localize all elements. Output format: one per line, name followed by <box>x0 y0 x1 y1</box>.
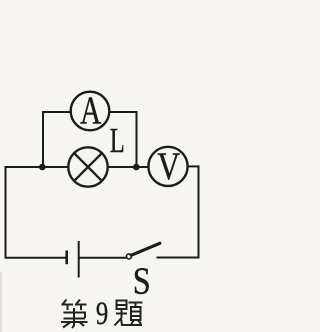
lamp L (circle with X) <box>68 147 107 186</box>
svg-text:S: S <box>133 260 151 302</box>
wire: left edge vertical <box>5 166 7 258</box>
wire: bottom left (corner to battery) <box>5 257 67 259</box>
wire: top row right (ammeter to right corner) <box>109 111 138 113</box>
node: left junction <box>39 164 46 171</box>
wire: lamp row left (left edge corner to lamp) <box>6 166 69 168</box>
wire: ammeter branch right vertical <box>136 111 138 167</box>
node: right junction <box>133 164 140 171</box>
wire: battery to switch pivot <box>80 257 127 259</box>
wire: ammeter branch left vertical <box>42 111 44 167</box>
caption: 题 (drawn as strokes) <box>115 301 143 326</box>
wire: top row left (to ammeter) <box>42 111 71 113</box>
wire: bottom right (switch to right corner) <box>157 257 200 259</box>
voltmeter U-V <box>148 147 187 186</box>
circuit schematic: lamp L with ammeter A in parallel, voltmeter V in series, battery and switch S <box>0 0 206 332</box>
switch S pivot <box>127 254 132 259</box>
svg-text:A: A <box>80 89 101 132</box>
svg-text:9: 9 <box>96 296 108 332</box>
switch S lever <box>131 243 160 255</box>
svg-text:V: V <box>157 144 180 188</box>
scan artifact: faint dark smear on left edge <box>0 272 2 332</box>
svg-text:L: L <box>110 121 125 160</box>
wire: right edge vertical <box>198 165 200 257</box>
ammeter U-A <box>71 92 110 131</box>
battery cell: long plate (positive) <box>78 241 80 278</box>
wire: voltmeter to right edge corner <box>188 165 199 167</box>
battery cell: short plate (negative) <box>65 251 68 265</box>
caption: 第 (drawn as strokes) <box>61 300 88 329</box>
wire: lamp to voltmeter <box>108 166 150 168</box>
